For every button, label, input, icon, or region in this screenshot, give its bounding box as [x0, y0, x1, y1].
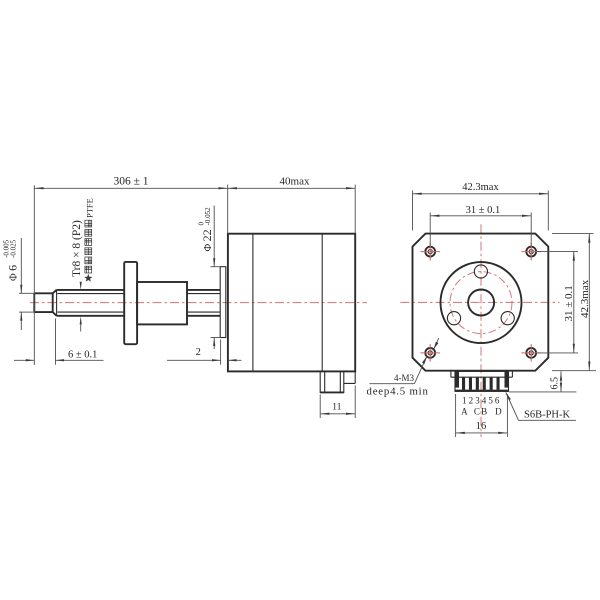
leader arrows from Tr8 label to screw OD	[80, 282, 82, 332]
svg-text:-0.052: -0.052	[204, 207, 212, 226]
svg-text:Φ 22: Φ 22	[200, 229, 214, 251]
dimension 2 (boss thickness)	[167, 340, 242, 365]
svg-text:4-M3: 4-M3	[394, 373, 414, 383]
dimension 6.5 (connector height, right)	[509, 371, 576, 392]
svg-text:3: 3	[475, 396, 480, 406]
dimension 42.3max right (vertical)	[552, 234, 596, 371]
svg-text:-0.025: -0.025	[10, 239, 18, 258]
side-view connector housing under motor	[320, 371, 355, 392]
lead screw body left segment (Tr8 thread, major + minor diameter lines)	[57, 290, 125, 316]
red horizontal centerline front view	[401, 301, 560, 303]
dimension phi6 with tolerances (vertical, rotated text)	[3, 238, 35, 330]
dimension 40max	[228, 176, 356, 234]
label star + CJK (screw surface PTFE coated) drawn as stroke glyphs	[84, 198, 94, 282]
lead screw body right segment	[187, 290, 220, 316]
center hole (lead screw bore)	[468, 290, 494, 316]
dimension 16 (connector width)	[456, 394, 508, 437]
six CJK glyph boxes	[85, 220, 92, 273]
connector side walls filled	[455, 371, 459, 387]
svg-text:2: 2	[469, 396, 474, 406]
svg-text:40max: 40max	[280, 176, 310, 188]
red vertical centerline front view	[480, 224, 482, 437]
svg-text:31 ± 0.1: 31 ± 0.1	[563, 285, 575, 321]
svg-text:42.3max: 42.3max	[462, 182, 499, 193]
mounting hole bottom-right with red crosshair	[521, 344, 541, 361]
star	[84, 274, 92, 282]
dimension 31 +-0.1 top	[430, 205, 531, 246]
dimension 42.3max top	[413, 182, 549, 231]
mounting hole bottom-left with red crosshair	[420, 344, 440, 361]
dimension 11 (side connector width)	[320, 385, 355, 418]
svg-text:deep4.5 min: deep4.5 min	[367, 386, 429, 398]
cover screw lower-left	[447, 312, 460, 325]
svg-text:16: 16	[476, 421, 487, 432]
dimension 306 +-1	[34, 176, 227, 366]
6 pins	[462, 377, 465, 390]
svg-text:2: 2	[196, 347, 201, 358]
mounting hole top-left with red crosshair	[420, 243, 440, 260]
dimension 31 +-0.1 right (vertical)	[537, 252, 578, 353]
centerline (red dash-dot) of side view	[30, 302, 367, 304]
svg-text:PTFE: PTFE	[85, 198, 95, 218]
label Tr8 x 8 (P2) rotated	[71, 220, 83, 277]
dimension 6 +-0.1	[14, 319, 104, 365]
svg-text:Tr8 × 8 (P2): Tr8 × 8 (P2)	[71, 220, 83, 277]
cover screw lower-right	[501, 312, 514, 325]
svg-text:11: 11	[332, 402, 342, 413]
pilot boss disc (phi22 x 2)	[220, 267, 226, 338]
red bolt circle (dash-dot)	[450, 272, 512, 334]
motor body rectangle (side view)	[228, 234, 355, 372]
svg-text:B: B	[481, 406, 487, 416]
cover screw top	[474, 265, 487, 278]
motor end cap joint line rear	[321, 234, 323, 372]
pilot circle (phi22 boss, front)	[441, 262, 522, 343]
svg-text:306 ± 1: 306 ± 1	[113, 176, 148, 188]
svg-text:6 ± 0.1: 6 ± 0.1	[68, 349, 97, 360]
svg-text:S6B-PH-K: S6B-PH-K	[524, 409, 571, 420]
front connector housing S6B-PH-K	[451, 371, 513, 391]
dimension phi22 with tolerances (vertical, rotated text)	[197, 206, 220, 349]
svg-text:1: 1	[462, 396, 467, 406]
nut cylinder body	[137, 282, 187, 324]
motor end cap joint line front	[252, 234, 254, 372]
shaft tip (machined end, 6 +-0.1 long)	[34, 290, 56, 316]
svg-text:5: 5	[488, 396, 493, 406]
svg-text:6: 6	[495, 396, 500, 406]
label 4-M3 deep4.5 min with leader to bottom-left hole	[367, 338, 439, 398]
svg-text:Φ 6: Φ 6	[6, 265, 20, 281]
pin numbers 1-6	[462, 396, 500, 406]
svg-text:31 ± 0.1: 31 ± 0.1	[466, 205, 501, 216]
svg-text:A: A	[461, 406, 468, 416]
svg-text:42.3max: 42.3max	[579, 279, 591, 318]
svg-text:C: C	[474, 406, 480, 416]
svg-text:4: 4	[482, 396, 487, 406]
label S6B-PH-K with leader	[506, 392, 576, 420]
mounting hole top-right with red crosshair	[521, 243, 541, 260]
svg-text:6.5: 6.5	[550, 377, 561, 390]
svg-text:D: D	[495, 406, 502, 416]
motor face plate (square with chamfered corners)	[413, 234, 549, 371]
wire letters A C B D	[461, 406, 502, 416]
nut flange disc	[124, 262, 137, 344]
